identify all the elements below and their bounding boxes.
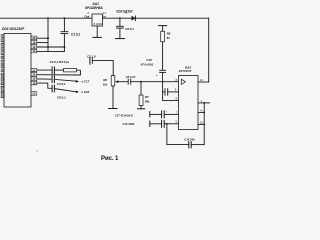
ground bar R6 (109, 108, 117, 110)
capacitor C9 bottom lead (119, 28, 121, 38)
potentiometer R6 body (111, 76, 115, 87)
ground bar C9 (116, 38, 125, 40)
regulator DA1 body (92, 14, 103, 26)
svg-text:16: 16 (32, 40, 35, 44)
pin 15 left box (1, 95, 4, 98)
wire right edge supply drop (208, 18, 210, 82)
svg-text:10к: 10к (103, 83, 108, 87)
svg-text:47,0×16 В: 47,0×16 В (140, 63, 154, 67)
svg-text:C3 0,1 R4 5,1к: C3 0,1 R4 5,1к (50, 60, 70, 64)
wire C4 to arrow (54, 79, 76, 81)
wire C11 to DA2 pin9 (168, 91, 179, 93)
pot R6 wiper arrow (115, 80, 118, 83)
wire C14 row right (191, 144, 204, 146)
svg-text:VD2 КД102: VD2 КД102 (116, 9, 132, 13)
svg-text:C2 1,0: C2 1,0 (87, 54, 96, 58)
wire R7 bottom (140, 106, 142, 109)
wire pin16 to supply vertical (37, 42, 48, 44)
pin 1 left box (1, 35, 4, 38)
svg-text:C4 0,1: C4 0,1 (57, 82, 66, 86)
wire pin12 row (37, 46, 65, 48)
svg-text:C1 0,1: C1 0,1 (71, 32, 80, 36)
pin 12 right box (31, 45, 37, 49)
capacitor C9 top lead (119, 18, 121, 26)
node junction C9 tap (119, 17, 121, 19)
wire C2 to pot R6 (92, 60, 113, 75)
wire DA1 gnd lead (96, 26, 98, 37)
scan speck (36, 150, 37, 151)
capacitor C14 plates (188, 142, 190, 148)
capacitor C3 plates (51, 67, 53, 74)
capacitor C9 plates (116, 25, 123, 27)
svg-text:C10: C10 (146, 58, 152, 62)
terminal bar C12 (149, 121, 151, 126)
pin 14 left box (1, 91, 4, 94)
ground bar DA1 (93, 36, 101, 38)
pin 10 left box (1, 73, 4, 76)
wire C3 to R4 (54, 69, 63, 71)
svg-text:9: 9 (175, 88, 177, 92)
svg-text:12: 12 (200, 78, 204, 82)
wire down to C14 row (166, 124, 168, 145)
capacitor C1 vertical lead from rail (63, 18, 65, 31)
wire top supply rail left (0, 17, 92, 19)
svg-text:6: 6 (176, 97, 178, 101)
pin 13 right box (31, 49, 37, 53)
svg-text:К174УН7: К174УН7 (179, 69, 192, 73)
resistor R7 body (139, 95, 143, 106)
capacitor C8 plates (127, 79, 129, 84)
pin 18 right box (31, 81, 37, 85)
chip DD1 ISD1210P body (4, 34, 31, 108)
svg-text:C9 0,1: C9 0,1 (125, 27, 134, 31)
wire C17 to DA2 pin7 (164, 113, 178, 115)
node junction C1/pin12 (63, 46, 65, 48)
capacitor C10 plates (160, 69, 166, 71)
node junction C10/C8 (162, 81, 164, 83)
pin 4 left box (1, 48, 4, 51)
svg-text:18: 18 (32, 81, 35, 85)
svg-text:C17 47,0×16 В: C17 47,0×16 В (115, 113, 133, 117)
amplifier DA2 triangle symbol (181, 79, 185, 84)
wire DA2 pin4 (198, 111, 204, 113)
wire C1 bottom lead (63, 34, 65, 52)
resistor R7 top lead (140, 82, 142, 95)
wire pin18 row jog (37, 83, 52, 88)
pin 3 left box (1, 43, 4, 46)
wire pin21 row to C3 (37, 69, 52, 71)
wire DA1 In to top-right rail (103, 17, 209, 19)
capacitor C12 plates (161, 120, 163, 127)
svg-text:56к: 56к (145, 100, 150, 104)
amplifier DA2 body (179, 76, 199, 130)
pin 20 right box (31, 73, 37, 77)
svg-text:C5 0,1: C5 0,1 (57, 96, 66, 100)
node junction pin4 (203, 112, 205, 114)
wire DA2 pin12 to supply (198, 81, 209, 83)
pin 9 left box (1, 69, 4, 72)
svg-text:4: 4 (201, 108, 203, 112)
svg-text:к C18: к C18 (82, 90, 90, 94)
svg-text:8 GND: 8 GND (94, 22, 103, 26)
resistor R9 top lead (162, 26, 164, 32)
terminal bar R9 top (159, 25, 167, 27)
wire feedback vertical x202.4 (203, 103, 205, 145)
capacitor C5 plates (51, 85, 53, 92)
pin 8 left box (1, 65, 4, 68)
resistor R9 body (161, 31, 165, 42)
wire DA2 vertical x162.6 to pin6 (162, 82, 164, 101)
svg-text:C12 1000: C12 1000 (123, 122, 135, 126)
pin 7 left box (1, 60, 4, 63)
pin 5 left box (1, 52, 4, 55)
svg-text:1: 1 (201, 99, 203, 103)
node junction C12/C14 (166, 123, 168, 125)
capacitor C17 plates (161, 111, 163, 118)
node junction rail x47.6 (47, 17, 49, 19)
wire C8 to DA2 pin8 (131, 81, 179, 83)
terminal bar C17 (149, 112, 151, 117)
ground bar R7 (138, 108, 145, 110)
pin 12 left box (1, 82, 4, 85)
pin 28 right box (31, 36, 37, 40)
pin 6 left box (1, 56, 4, 59)
svg-text:13: 13 (32, 49, 35, 53)
wire supply vertical x47.6 (47, 18, 49, 51)
node junction pin10 (203, 124, 205, 126)
svg-text:20: 20 (32, 73, 35, 77)
pin 2 left box (1, 39, 4, 42)
right pin numbers column (32, 36, 35, 96)
svg-text:R7: R7 (145, 95, 149, 99)
diode VD2 (132, 16, 136, 21)
arrow to C17 (76, 80, 79, 83)
wire R9 to C10 (162, 42, 164, 70)
svg-text:8: 8 (176, 78, 178, 82)
svg-text:+: + (165, 109, 167, 113)
node junction pin28 wire (47, 37, 49, 39)
svg-text:к C17: к C17 (82, 80, 90, 84)
wire pin28 to supply vertical (37, 37, 48, 39)
svg-text:КР142ЕН5А: КР142ЕН5А (85, 6, 103, 10)
capacitor C2 plate (91, 58, 93, 64)
wire C12 terminal to plates (150, 123, 162, 125)
pin 21 right box (31, 68, 37, 72)
svg-text:51: 51 (167, 36, 171, 40)
capacitor C11 plates at pin9 (164, 89, 166, 96)
resistor R4 body (64, 68, 77, 72)
svg-text:28: 28 (32, 36, 35, 40)
svg-text:+: + (156, 74, 158, 78)
svg-text:12: 12 (32, 45, 35, 49)
node junction R7 top (140, 81, 142, 83)
pin 13 left box (1, 86, 4, 89)
wire C17 terminal to plates (150, 113, 162, 115)
wire R4 u-turn to pin20 row (37, 70, 81, 75)
svg-text:C8 0,47: C8 0,47 (126, 75, 136, 79)
node junction pin1 (203, 102, 205, 104)
wire C14 row left (167, 144, 189, 146)
wire C5 to arrow (54, 89, 76, 92)
svg-text:C14 510: C14 510 (184, 138, 195, 142)
wire DA2 pin10 (198, 123, 204, 125)
pin 25 right box (31, 92, 37, 96)
wire pin17 row (37, 78, 52, 80)
left pin numbers column (1, 34, 4, 98)
svg-text:25: 25 (32, 92, 35, 96)
svg-text:DD1 ISD1210P: DD1 ISD1210P (2, 27, 25, 31)
svg-text:Рис. 1: Рис. 1 (101, 156, 119, 162)
svg-text:5: 5 (176, 120, 178, 124)
capacitor C1 plates (61, 31, 68, 33)
capacitor C4 plates (51, 76, 53, 83)
wire pot R6 bottom to ground (112, 86, 114, 108)
wire C12 to DA2 pin5 (164, 123, 178, 125)
wire to DA2 pin6 (163, 99, 179, 101)
pin 11 left box (1, 78, 4, 81)
svg-text:7: 7 (176, 110, 178, 114)
arrow to C18 (76, 91, 79, 94)
svg-text:10: 10 (200, 120, 204, 124)
terminal bar C2 (89, 57, 91, 64)
wire pin13 row (37, 50, 65, 52)
node junction rail x64.4 (64, 17, 66, 19)
wire C10 bottom (162, 73, 164, 82)
pin 17 right box (31, 77, 37, 81)
wire DA2 pin1 output (198, 102, 210, 104)
pin 16 right box (31, 41, 37, 45)
